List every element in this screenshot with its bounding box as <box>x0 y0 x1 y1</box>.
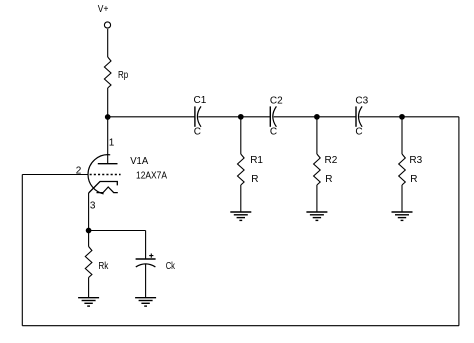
svg-text:C: C <box>270 126 277 137</box>
ground below R3 <box>392 212 413 220</box>
svg-text:12AX7A: 12AX7A <box>136 171 167 182</box>
wire Rp to plate node <box>107 88 109 117</box>
capacitor Ck (polarized) <box>136 254 176 273</box>
triode V1A grid dashed line <box>90 174 121 176</box>
capacitor C1 <box>194 95 207 137</box>
wire cathode junction to Ck <box>89 230 146 232</box>
wire C3 to node C and right edge <box>359 116 459 118</box>
svg-text:V1A: V1A <box>130 156 148 167</box>
svg-text:Rk: Rk <box>98 261 109 272</box>
triode V1A plate bar <box>98 163 118 165</box>
wire R2 to ground <box>316 185 318 212</box>
ground below R1 <box>230 212 251 220</box>
wire Ck to ground <box>145 265 147 298</box>
wire feedback right vertical <box>458 117 460 326</box>
wire cathode pin 3 to junction <box>88 193 90 231</box>
svg-text:V+: V+ <box>98 4 109 15</box>
wire feedback bottom horizontal <box>22 325 459 327</box>
svg-text:R1: R1 <box>250 155 263 166</box>
ground below R2 <box>306 212 327 220</box>
op-amp: none; triode V1A plate lead pin 1 <box>107 117 109 163</box>
capacitor C3 <box>355 95 368 137</box>
svg-text:C: C <box>194 126 201 137</box>
wire grid to feedback (pin 2) <box>22 174 88 176</box>
ground below Ck <box>135 298 156 306</box>
wire node C to R3 <box>401 117 403 154</box>
node cathode junction <box>86 228 91 233</box>
resistor R1 <box>238 154 245 185</box>
resistor Rp <box>104 57 111 88</box>
wire rail node to C1 <box>108 116 195 118</box>
node B junction <box>315 115 320 120</box>
svg-text:Ck: Ck <box>166 261 176 272</box>
svg-text:R: R <box>325 174 332 185</box>
triode V1A cathode <box>89 182 118 194</box>
resistor Rk <box>85 247 92 278</box>
wire feedback left vertical <box>21 175 23 326</box>
wire R1 to ground <box>240 185 242 212</box>
node C junction <box>400 115 405 120</box>
svg-text:C1: C1 <box>194 95 207 106</box>
wire C2 to node B <box>274 116 317 118</box>
resistor R3 <box>399 154 406 185</box>
wire node B to C3 <box>317 116 356 118</box>
wire C1 to node A <box>198 116 241 118</box>
resistor R2 <box>314 154 321 185</box>
wire junction to Rk <box>88 231 90 247</box>
svg-text:R: R <box>251 174 258 185</box>
svg-text:R3: R3 <box>409 155 422 166</box>
svg-text:R2: R2 <box>325 155 338 166</box>
power terminal circle <box>104 22 110 28</box>
svg-text:C: C <box>355 126 362 137</box>
wire node A to C2 <box>241 116 270 118</box>
svg-text:R: R <box>410 174 417 185</box>
wire node B to R2 <box>316 117 318 154</box>
svg-text:C2: C2 <box>270 95 283 106</box>
wire node A to R1 <box>240 117 242 154</box>
svg-text:C3: C3 <box>355 95 368 106</box>
svg-text:Rp: Rp <box>118 70 129 81</box>
triode V1A envelope arc <box>88 155 110 194</box>
wire R3 to ground <box>401 185 403 212</box>
capacitor C2 <box>270 95 283 137</box>
ground below Rk <box>78 298 99 306</box>
svg-text:1: 1 <box>109 138 115 149</box>
svg-text:3: 3 <box>90 200 96 211</box>
node A junction <box>239 115 244 120</box>
svg-text:2: 2 <box>76 166 82 177</box>
wire V+ to Rp <box>107 29 109 57</box>
wire Rk to ground <box>88 278 90 298</box>
wire Ck top lead <box>145 231 147 259</box>
node junction plate/rail <box>105 115 110 120</box>
